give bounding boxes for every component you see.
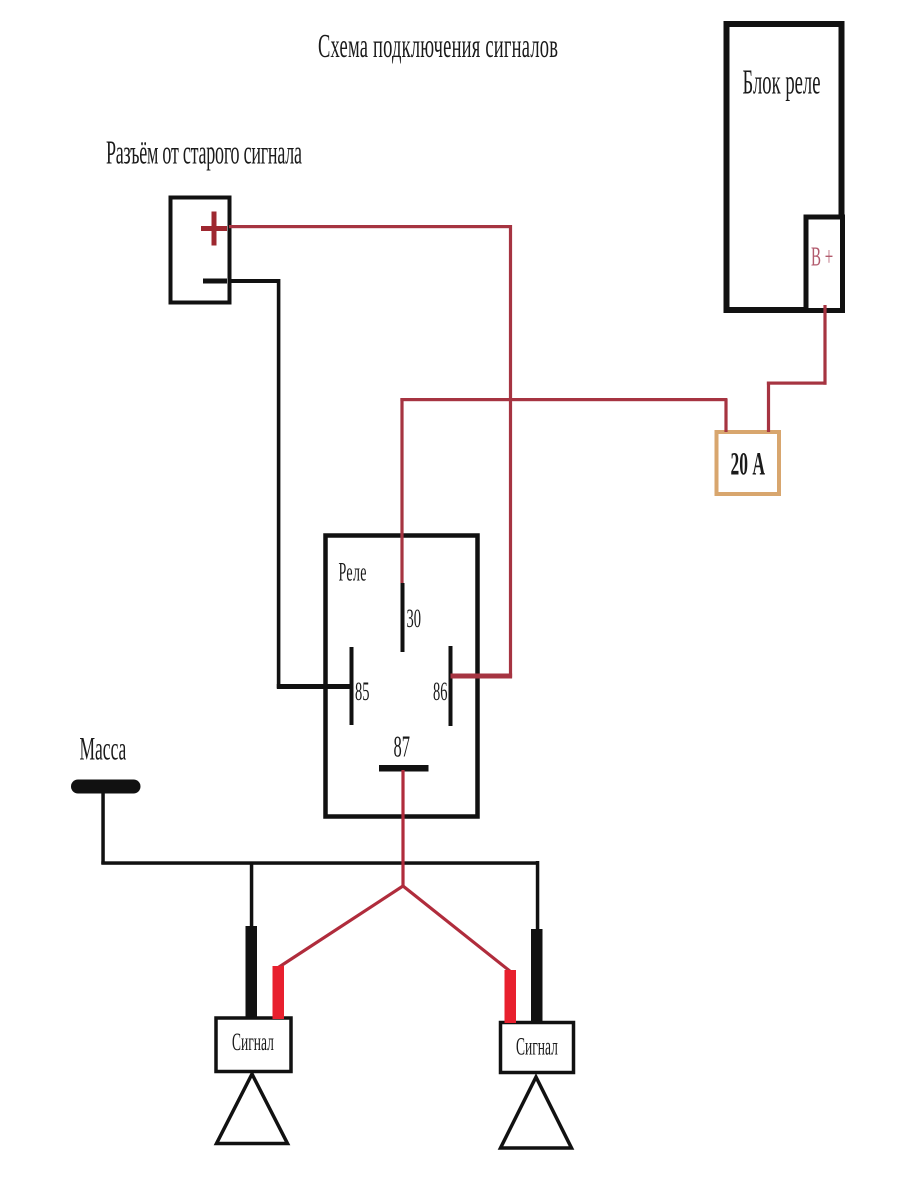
svg-text:Сигнал: Сигнал bbox=[232, 1029, 274, 1056]
red wire: right diagonal of Y bbox=[403, 886, 510, 972]
svg-text:Сигнал: Сигнал bbox=[516, 1033, 558, 1060]
black wire: minus of X1 to right then down bbox=[229, 279, 280, 283]
ground bar symbol bbox=[71, 780, 141, 794]
svg-text:Масса: Масса bbox=[80, 731, 127, 767]
relay pin 30 bar bbox=[401, 583, 405, 652]
red wire: horizontal into relay pin 86 bbox=[451, 674, 513, 679]
svg-text:20 А: 20 А bbox=[731, 446, 766, 482]
thick black lead into left signal bbox=[246, 926, 258, 1019]
red wire: left diagonal of Y bbox=[278, 886, 403, 968]
svg-text:85: 85 bbox=[355, 676, 369, 706]
black wire: left drop to left signal bbox=[250, 863, 254, 928]
svg-text:Реле: Реле bbox=[339, 557, 367, 587]
left horn triangle bbox=[217, 1074, 288, 1144]
black wire: ground bus horizontal bbox=[101, 861, 539, 865]
red wire: fuse left lead down bbox=[724, 399, 727, 432]
relay pin 85 bar bbox=[350, 647, 354, 725]
B+ terminal box inside relay block bbox=[806, 217, 843, 311]
relay block box: Блок реле bbox=[727, 24, 842, 310]
thick red lead into left signal bbox=[273, 966, 285, 1019]
relay pin 87 bar bbox=[379, 765, 429, 772]
svg-text:Разъём от старого сигнала: Разъём от старого сигнала bbox=[106, 134, 302, 171]
minus terminal of X1 bbox=[203, 279, 227, 284]
right horn triangle bbox=[501, 1077, 572, 1148]
black wire: vertical down to pin85 level bbox=[277, 279, 281, 688]
left signal box: Сигнал bbox=[216, 1018, 291, 1072]
relay pin 86 bar bbox=[449, 646, 453, 726]
right signal box: Сигнал bbox=[501, 1023, 574, 1073]
svg-text:Блок реле: Блок реле bbox=[743, 62, 821, 101]
svg-text:В +: В + bbox=[811, 241, 833, 272]
connector X1 (old signal connector) box bbox=[171, 198, 230, 303]
black wire: right drop to right signal bbox=[536, 861, 540, 931]
svg-text:30: 30 bbox=[406, 603, 420, 633]
fuse F1 box 20 A bbox=[717, 432, 780, 494]
relay box: Реле bbox=[326, 536, 478, 817]
svg-text:Схема подключения сигналов: Схема подключения сигналов bbox=[318, 26, 558, 65]
svg-text:87: 87 bbox=[394, 731, 410, 765]
red wire: horizontal feed at y400 to fuse bbox=[400, 398, 727, 401]
thick red lead into right signal bbox=[505, 970, 517, 1023]
red wire: stem from pin 87 down bbox=[401, 770, 404, 886]
red wire: horizontal toward B+ bbox=[767, 382, 827, 385]
plus terminal of X1 bbox=[201, 212, 227, 246]
red wire: fuse right lead up bbox=[767, 382, 770, 433]
black wire: horizontal into relay pin 85 bbox=[277, 684, 351, 689]
red wire: vertical down to relay pin 30 bbox=[400, 398, 403, 583]
red wire: vertical up into B+ box bbox=[823, 305, 826, 385]
black wire: ground bar down bbox=[101, 793, 105, 864]
red wire: from plus of X1 to the right bbox=[229, 225, 512, 228]
thick black lead into right signal bbox=[531, 929, 543, 1023]
red wire: vertical trunk down (x511) bbox=[509, 225, 512, 678]
svg-text:86: 86 bbox=[433, 676, 448, 706]
